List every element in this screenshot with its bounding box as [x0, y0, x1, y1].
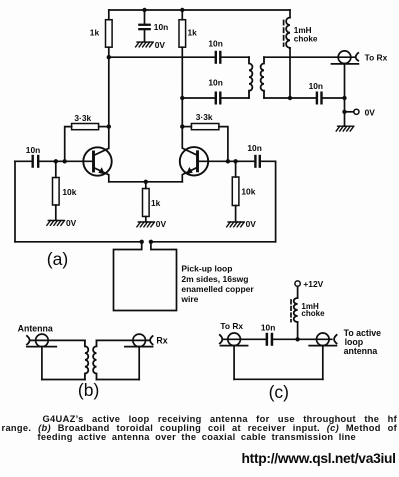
svg-text:0V: 0V	[66, 218, 77, 228]
svg-text:3·3k: 3·3k	[74, 113, 91, 123]
svg-text:choke: choke	[294, 35, 318, 44]
node dot top rail at R2	[180, 8, 184, 12]
wire +12V down to choke	[297, 286, 299, 298]
node dot base rail at R6	[54, 159, 58, 163]
svg-text:0V: 0V	[246, 219, 257, 229]
terminal 0V open circle	[354, 109, 359, 114]
node dot R3 left at base rail	[62, 159, 66, 163]
terminal +12V open circle	[295, 281, 300, 286]
node dot emitter rail at R5	[144, 180, 148, 184]
svg-text:1k: 1k	[151, 198, 161, 208]
transistor Q2 base bar	[196, 152, 199, 171]
capacitor C1 10n decoupling	[138, 10, 151, 42]
svg-text:2m sides, 16swg: 2m sides, 16swg	[181, 274, 248, 284]
node dot rail y57 at R1/Q1 collector	[107, 55, 111, 59]
wire C7 to right connector	[273, 338, 332, 340]
connector Antenna (b) circle	[36, 334, 49, 347]
ground under C1	[136, 42, 154, 47]
connector Antenna (b) shield line	[27, 346, 56, 348]
svg-text:To Rx: To Rx	[365, 52, 388, 62]
capacitor C2 10n (upper coupling to transformer)	[215, 51, 222, 64]
ground under R7	[227, 222, 245, 227]
wire antenna loop bottom	[42, 379, 85, 381]
label To active loop antenna	[344, 328, 382, 356]
wire emitter rail	[109, 181, 183, 183]
connector Rx (b) circle	[133, 334, 146, 347]
svg-text:10n: 10n	[154, 22, 168, 32]
caption line 2	[2, 424, 398, 433]
wire Rx loop bottom	[97, 379, 140, 381]
wire rail y98 left segment	[182, 97, 214, 99]
transformer T1 primary winding	[249, 57, 252, 98]
resistor R2 1k (right)	[179, 10, 186, 98]
svg-text:10k: 10k	[62, 187, 76, 197]
transistor Q2 circle	[180, 147, 208, 175]
svg-text:0V: 0V	[156, 219, 167, 229]
connector Antenna (b) pin wire to primary	[31, 339, 85, 341]
capacitor C7 10n (c)	[266, 333, 274, 346]
wire To Rx stem down (c)	[233, 346, 235, 380]
svg-text:(b): (b)	[78, 380, 99, 400]
wire input left drop	[14, 161, 16, 242]
node dot stem at rail y98	[342, 96, 346, 100]
connector To Rx (a) circle	[338, 51, 351, 64]
node dot choke at coax line	[295, 337, 299, 341]
URL watermark	[242, 452, 396, 466]
wire C4 to To Rx stem	[323, 97, 345, 99]
connector To Rx (c) plug chevron	[220, 335, 223, 344]
transistor Q2 base wire to right	[198, 160, 255, 162]
svg-text:+12V: +12V	[303, 279, 323, 289]
node dot top rail at C1	[142, 8, 146, 12]
svg-text:(a): (a)	[47, 249, 68, 269]
transistor Q1 collector	[94, 57, 109, 155]
svg-text:Pick-up loop: Pick-up loop	[181, 264, 232, 274]
svg-text:10n: 10n	[208, 78, 222, 88]
connector active-loop (c) plug chevron	[334, 335, 337, 344]
wire rail y57 left segment	[109, 56, 215, 58]
connector active-loop (c) shield line	[309, 345, 336, 347]
wire bottom rail left	[15, 241, 142, 243]
node dot loop terminal right	[149, 240, 153, 244]
resistor R7 10k (right bias)	[232, 161, 239, 221]
svg-text:Antenna: Antenna	[18, 324, 53, 334]
connector Rx (b) shield line	[125, 346, 153, 348]
connector Rx (b) plug chevron	[150, 336, 153, 344]
resistor R3 3.3k feedback (left)	[65, 124, 109, 162]
transistor Q1 emitter with arrow	[94, 167, 109, 182]
resistor R1 1k (left)	[106, 10, 113, 57]
node dot base rail at R7	[233, 159, 237, 163]
wire to 0V terminal	[345, 111, 354, 113]
node dot choke bottom on rail y98	[288, 96, 292, 100]
svg-text:choke: choke	[301, 309, 325, 318]
node dot R3 right at collector line	[107, 124, 111, 128]
wire bottom link (c)	[234, 378, 323, 380]
wire C2 to transformer primary top	[222, 56, 250, 58]
wire antenna stem down	[41, 347, 43, 380]
ground under R5	[137, 222, 155, 227]
svg-text:1k: 1k	[90, 28, 100, 38]
svg-text:To Rx: To Rx	[220, 321, 243, 331]
node dot loop terminal left	[140, 240, 144, 244]
transformer T2 secondary winding	[93, 340, 96, 379]
svg-text:enamelled copper: enamelled copper	[181, 284, 254, 294]
connector Antenna (b) plug chevron	[27, 336, 30, 345]
connector To Rx (a) shield line	[332, 63, 359, 65]
wire bottom rail right	[151, 241, 276, 243]
capacitor C4 10n (output to 0V)	[316, 92, 323, 105]
svg-text:0V: 0V	[365, 108, 376, 118]
transformer T1 secondary winding	[261, 57, 264, 98]
ground under To Rx stem	[336, 126, 354, 131]
node dot R4 right at base rail	[226, 159, 230, 163]
svg-text:10n: 10n	[247, 143, 261, 153]
wire top supply rail	[109, 9, 290, 11]
caption line 1	[43, 415, 398, 424]
svg-text:antenna: antenna	[344, 346, 378, 356]
node dot R4 left at collector line	[180, 124, 184, 128]
choke L1 dashed core	[283, 21, 285, 47]
choke L2 1mH	[294, 298, 298, 322]
connector To Rx (c) pin wire	[224, 338, 266, 340]
svg-text:1mH: 1mH	[294, 26, 312, 35]
resistor R5 1k shared emitter	[143, 182, 150, 222]
capacitor C5 10n input	[15, 155, 94, 168]
svg-text:0V: 0V	[155, 40, 166, 50]
label pick-up loop text	[180, 264, 254, 305]
wire active-loop stem down (c)	[322, 346, 324, 380]
capacitor C6 10n output feedback	[254, 155, 275, 242]
choke L2 dashed core	[290, 300, 292, 322]
ground under R6	[47, 221, 65, 226]
wire secondary top to Rx	[97, 339, 150, 341]
svg-text:3·3k: 3·3k	[196, 112, 213, 122]
wire secondary bottom to C4	[264, 97, 316, 99]
wire choke to junction	[297, 322, 299, 339]
wire To Rx stem down	[344, 64, 346, 126]
svg-text:Rx: Rx	[156, 336, 167, 346]
svg-text:wire: wire	[180, 294, 198, 304]
connector To Rx (c) circle	[228, 333, 241, 346]
caption line 3	[38, 433, 357, 442]
transistor Q1 circle	[83, 147, 111, 175]
connector To Rx (c) shield line	[221, 345, 248, 347]
connector To Rx (a) plug chevron	[356, 53, 359, 61]
transformer T2 primary winding	[85, 340, 88, 379]
connector active-loop (c) circle	[317, 333, 330, 346]
transistor Q2 collector	[182, 98, 197, 155]
svg-text:10n: 10n	[261, 323, 275, 333]
wire secondary top to To Rx pin	[264, 56, 355, 58]
capacitor C3 10n (lower coupling to transformer)	[215, 92, 222, 105]
wire C3 to transformer primary bottom	[222, 97, 250, 99]
pick-up loop box	[114, 242, 177, 311]
transistor Q2 emitter with arrow	[182, 167, 197, 182]
svg-text:1k: 1k	[188, 28, 198, 38]
wire Rx stem down	[138, 347, 140, 380]
svg-text:(c): (c)	[269, 382, 289, 402]
svg-text:10n: 10n	[26, 145, 40, 155]
svg-text:10k: 10k	[241, 186, 255, 196]
node dot rail y98 at R2/Q2 collector	[180, 96, 184, 100]
svg-text:10n: 10n	[208, 38, 222, 48]
resistor R4 3.3k feedback (right)	[182, 124, 228, 162]
transistor Q1 base bar	[92, 152, 95, 171]
choke L1 1mH	[286, 10, 290, 98]
svg-text:10n: 10n	[309, 81, 323, 91]
resistor R6 10k (left bias)	[53, 161, 60, 220]
node dot stem at 0V tap	[342, 110, 346, 114]
